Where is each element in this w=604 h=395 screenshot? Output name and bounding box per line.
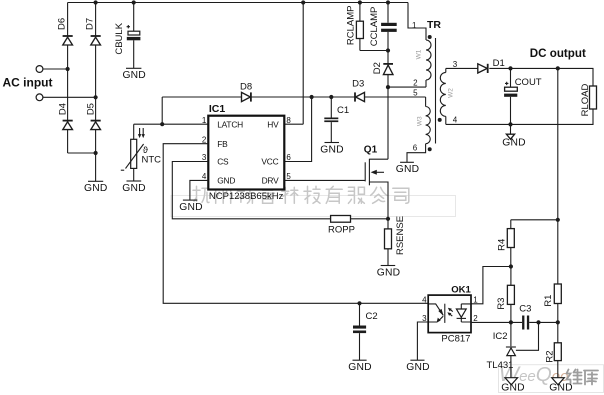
svg-text:3: 3 — [453, 60, 458, 69]
ground C2 — [348, 360, 371, 373]
wire VCC to pin6 — [284, 97, 311, 162]
light arrows OK1 — [447, 308, 452, 316]
svg-text:W3: W3 — [417, 116, 424, 126]
svg-text:DRV: DRV — [262, 176, 280, 186]
wire opto pin1 to divider — [471, 267, 511, 304]
resistor RCLAMP — [346, 3, 364, 51]
wire top bulk rail — [68, 2, 408, 4]
svg-text:OK1: OK1 — [451, 284, 471, 295]
wire bridge bottom join — [68, 151, 98, 155]
svg-text:RLOAD: RLOAD — [580, 83, 591, 116]
svg-text:R4: R4 — [496, 239, 507, 251]
wire TL431 ref — [516, 322, 539, 350]
svg-text:4: 4 — [422, 296, 427, 305]
svg-text:GND: GND — [396, 164, 419, 175]
ground opto pin3 — [406, 360, 429, 373]
diode D8 — [240, 82, 252, 102]
svg-text:GND: GND — [84, 183, 107, 194]
wire bridge right leg — [95, 3, 97, 182]
svg-text:4: 4 — [453, 116, 458, 125]
resistor ROPP — [328, 216, 390, 236]
svg-text:R3: R3 — [496, 298, 507, 310]
wire drain riser — [387, 87, 389, 159]
svg-text:1: 1 — [412, 21, 417, 30]
ground R2 — [549, 378, 572, 394]
svg-text:3: 3 — [202, 153, 207, 162]
winding W3 aux — [407, 97, 432, 162]
svg-text:GND: GND — [501, 383, 524, 394]
wire HV/VCC horizontal net — [162, 88, 425, 97]
svg-text:CS: CS — [217, 157, 229, 167]
capacitor CBULK — [114, 3, 141, 69]
wire FB pin2 loop to optocoupler — [163, 144, 428, 304]
wire feedback row opto pin2 — [471, 320, 560, 324]
watermark WeeQoo logo — [499, 362, 569, 386]
watermark frame middle — [171, 196, 456, 217]
svg-text:GND: GND — [217, 176, 235, 186]
pin numbers OK1 — [422, 296, 478, 323]
ground COUT — [502, 124, 525, 148]
ground TR pin6 — [396, 162, 419, 175]
svg-text:RSENSE: RSENSE — [395, 216, 406, 255]
wire bridge left leg — [67, 3, 69, 154]
wire AC lower terminal — [43, 95, 98, 99]
svg-text:DC output: DC output — [530, 47, 586, 60]
svg-text:TL431: TL431 — [487, 360, 514, 371]
resistor R4 — [496, 220, 514, 267]
svg-text:D1: D1 — [493, 58, 505, 69]
svg-text:IC2: IC2 — [493, 331, 508, 342]
svg-text:D4: D4 — [58, 103, 69, 115]
wire LATCH row / NTC feed — [134, 123, 209, 125]
wire feedback sense drop — [556, 68, 560, 284]
svg-text:D6: D6 — [56, 18, 67, 30]
wire HV riser — [284, 3, 303, 125]
resistor RLOAD — [580, 83, 597, 116]
svg-text:GND: GND — [122, 70, 145, 81]
LED inside OK1 — [429, 304, 445, 323]
ground IC1 — [179, 200, 202, 213]
thermistor NTC — [121, 124, 161, 181]
shunt regulator IC2 TL431 — [487, 322, 516, 377]
AC input terminals — [3, 66, 53, 101]
ground TL431 — [501, 378, 524, 394]
svg-text:C1: C1 — [337, 105, 349, 116]
phototransistor inside OK1 — [456, 304, 471, 322]
ground C1 — [320, 143, 343, 156]
svg-text:ROPP: ROPP — [328, 224, 355, 235]
svg-text:2: 2 — [413, 79, 418, 88]
svg-text:NCP1238B65kHz: NCP1238B65kHz — [209, 191, 284, 202]
svg-text:D2: D2 — [372, 62, 383, 74]
winding W2 secondary — [438, 60, 458, 125]
ground CBULK — [122, 68, 145, 81]
transistor Q1 — [364, 145, 388, 219]
svg-text:4: 4 — [202, 172, 207, 181]
node DC+ junctions — [508, 66, 560, 70]
svg-text:6: 6 — [286, 153, 291, 162]
svg-text:GND: GND — [320, 144, 343, 155]
svg-text:2: 2 — [202, 135, 207, 144]
svg-text:GND: GND — [122, 183, 145, 194]
optocoupler OK1 PC817 — [428, 284, 471, 344]
svg-text:LATCH: LATCH — [217, 119, 243, 129]
DC output label — [530, 47, 586, 60]
op-amp U1 controller IC1 NCP1238 — [208, 103, 284, 202]
capacitor C1 — [324, 95, 349, 143]
node COUT bottom junction — [508, 122, 512, 126]
svg-text:CCLAMP: CCLAMP — [369, 7, 380, 47]
svg-text:D7: D7 — [85, 18, 96, 30]
watermark hangzhou text (stylized strokes) — [193, 186, 409, 203]
pin numbers IC1 — [202, 116, 292, 181]
node drain junction — [386, 85, 390, 89]
node VCC junction — [310, 95, 314, 99]
resistor R1 — [543, 284, 561, 322]
svg-text:3: 3 — [422, 314, 427, 323]
svg-text:VCC: VCC — [261, 157, 278, 167]
svg-text:GND: GND — [179, 202, 202, 213]
diode D3 — [352, 78, 364, 101]
svg-text:6: 6 — [413, 143, 418, 152]
svg-text:AC input: AC input — [3, 75, 53, 89]
svg-text:COUT: COUT — [515, 77, 542, 88]
capacitor CCLAMP — [369, 3, 397, 51]
svg-text:2: 2 — [473, 314, 478, 323]
wire R4 top row — [511, 219, 558, 221]
svg-text:C3: C3 — [519, 304, 531, 315]
svg-text:D8: D8 — [240, 82, 252, 93]
ground NTC — [122, 181, 145, 194]
svg-text:R2: R2 — [544, 350, 555, 362]
diode D6 — [56, 18, 72, 45]
watermark weiku glyphs — [567, 370, 599, 385]
wire secondary top row pin3 — [446, 68, 593, 86]
svg-text:GND: GND — [502, 137, 525, 148]
winding W1 primary — [408, 3, 432, 88]
svg-text:GND: GND — [406, 362, 429, 373]
wire opto pin3 to ground — [417, 322, 428, 360]
diode D4 — [58, 103, 73, 130]
watermark frame bottom right — [499, 365, 604, 393]
svg-text:HV: HV — [267, 119, 279, 129]
svg-text:RCLAMP: RCLAMP — [346, 6, 357, 46]
wire DRV pin5 to gate — [284, 179, 365, 181]
svg-text:D3: D3 — [352, 78, 364, 89]
resistor R3 — [496, 267, 514, 323]
diode D5 — [86, 103, 101, 130]
svg-text:W2: W2 — [448, 88, 455, 98]
svg-text:PC817: PC817 — [441, 334, 470, 345]
diode D1 — [478, 58, 505, 73]
pin names IC1 — [217, 119, 279, 185]
wire CS pin3 to ROPP — [172, 162, 330, 219]
svg-text:D5: D5 — [86, 103, 97, 115]
resistor R2 — [544, 322, 561, 377]
wire IC1 GND pin4 — [190, 180, 208, 200]
svg-text:5: 5 — [413, 88, 418, 97]
wire TR pin2 row — [388, 79, 426, 88]
svg-text:GND: GND — [377, 267, 400, 278]
svg-text:GND: GND — [549, 383, 572, 394]
svg-text:NTC: NTC — [142, 155, 162, 166]
svg-text:8: 8 — [286, 116, 291, 125]
wire AC upper terminal — [43, 67, 70, 71]
wire secondary bottom row pin4 — [446, 109, 593, 124]
diode D7 — [85, 18, 101, 45]
svg-text:C2: C2 — [366, 311, 378, 322]
wire clamp bottom join — [360, 48, 390, 52]
svg-text:CBULK: CBULK — [114, 22, 125, 54]
wire D8 anode drop — [160, 97, 164, 126]
node R4/R3 junction — [509, 264, 513, 268]
svg-text:5: 5 — [286, 172, 291, 181]
capacitor C3 — [519, 304, 531, 330]
svg-text:IC1: IC1 — [209, 103, 226, 115]
diode D2 — [372, 51, 393, 88]
ground bridge — [84, 181, 107, 194]
svg-text:W1: W1 — [416, 49, 423, 59]
transformer TR core — [427, 19, 441, 144]
svg-text:1: 1 — [202, 116, 207, 125]
svg-text:1: 1 — [473, 296, 478, 305]
svg-text:R1: R1 — [543, 295, 554, 307]
capacitor COUT — [504, 68, 542, 124]
svg-text:TR: TR — [427, 19, 441, 31]
capacitor C2 — [353, 301, 378, 360]
resistor RSENSE — [385, 216, 406, 266]
node junction dots on top rail — [94, 0, 391, 4]
ground RSENSE — [377, 266, 400, 279]
svg-text:GND: GND — [348, 362, 371, 373]
svg-text:Q1: Q1 — [364, 145, 378, 156]
svg-text:FB: FB — [217, 139, 228, 149]
